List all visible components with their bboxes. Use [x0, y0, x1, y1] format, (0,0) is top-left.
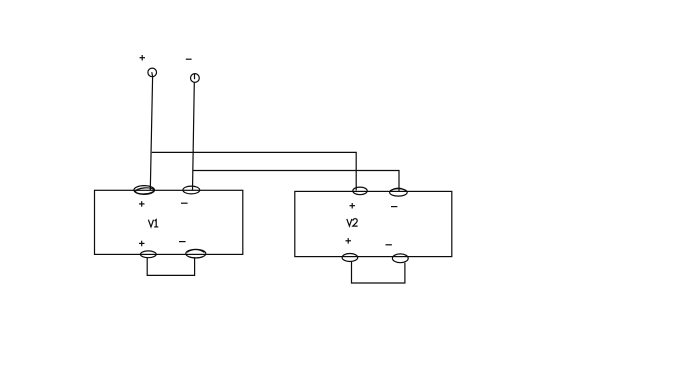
- wire from - terminal down to V1 - post: [193, 83, 195, 191]
- V1 bottom + post ellipse: [140, 251, 156, 258]
- V2 + polarity label (bottom row): [346, 238, 352, 244]
- V2 - polarity label (top row): [391, 206, 397, 208]
- V1 + polarity label (top row): [139, 201, 145, 207]
- V1 - post ellipse (top edge): [183, 186, 200, 194]
- wire branch from + line across to V2 + post: [152, 152, 356, 190]
- label + (external positive terminal label): [140, 55, 146, 61]
- terminal P2 (external - terminal circle): [191, 73, 200, 82]
- V1 bottom - post ellipse: [186, 249, 206, 258]
- label - (external negative terminal label): [186, 58, 192, 60]
- wire from + terminal down to V1 + post: [150, 77, 152, 190]
- V2 - post ellipse (top edge): [390, 188, 408, 196]
- V1 shorting jumper wire loop: [147, 258, 194, 276]
- V1 + polarity label (bottom row): [139, 241, 145, 247]
- V1 reference label: [148, 220, 158, 227]
- V1 - polarity label (top row): [181, 202, 188, 204]
- V2 bottom - post ellipse: [392, 254, 408, 263]
- wire branch from - line across to V2 - post: [193, 171, 399, 193]
- V2 - polarity label (bottom row): [386, 244, 392, 246]
- V1 + post ellipse (top edge): [134, 186, 155, 195]
- V2 + post ellipse (top edge): [353, 187, 367, 195]
- V2 reference label: [347, 219, 358, 226]
- V2 shorting jumper wire loop: [352, 261, 405, 283]
- battery V2 box: [295, 191, 452, 256]
- battery V1 box: [95, 190, 243, 254]
- V2 + polarity label (top row): [350, 203, 356, 209]
- V1 - polarity label (bottom row): [179, 241, 186, 243]
- V2 bottom + post ellipse: [342, 254, 358, 262]
- terminal P1 (external + terminal circle): [148, 68, 157, 77]
